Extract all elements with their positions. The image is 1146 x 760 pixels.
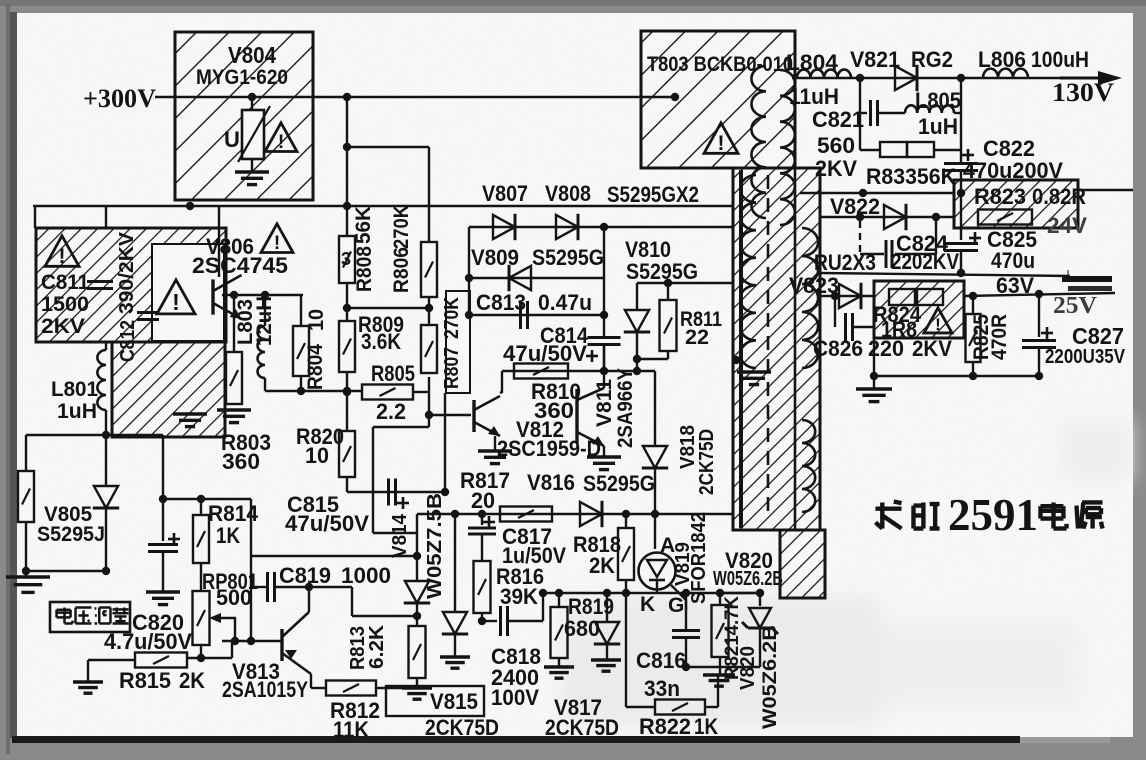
svg-text:10: 10 — [305, 309, 328, 331]
junction rect row — [600, 223, 608, 231]
transformer core hatched strip — [733, 168, 820, 530]
svg-text:W05Z6.2B: W05Z6.2B — [760, 625, 781, 729]
capacitor C813 — [519, 301, 522, 329]
resistor R820 — [346, 392, 348, 431]
inductor L805 — [905, 105, 954, 113]
diode V814 — [405, 581, 429, 603]
faint watermark — [560, 420, 1130, 726]
resistor R817 — [500, 507, 552, 522]
R824 hatched box — [874, 281, 964, 338]
wire C818 right — [508, 620, 543, 622]
hatched box below V806 — [112, 342, 225, 437]
diode V809 — [509, 266, 531, 290]
svg-text:L801: L801 — [51, 378, 98, 401]
inductor L804 — [797, 70, 851, 78]
svg-text:1uH: 1uH — [918, 114, 958, 139]
diode V818 on x655 — [654, 371, 656, 446]
bottom scan shadow line — [12, 736, 1020, 743]
svg-text:2SA966Y: 2SA966Y — [614, 368, 637, 448]
wire to V813 collector — [308, 587, 310, 612]
svg-text:130V: 130V — [1052, 78, 1114, 107]
ground in hatched box — [173, 412, 207, 415]
ground under R819 — [558, 658, 560, 666]
ground bottom-left — [25, 571, 27, 576]
svg-text:360: 360 — [222, 449, 260, 474]
svg-text:1uH: 1uH — [57, 400, 97, 423]
T803 primary winding left — [751, 66, 766, 218]
svg-text:RU2X3: RU2X3 — [814, 250, 876, 275]
varistor V804 — [251, 97, 253, 110]
capacitor C817 electrolytic — [481, 514, 483, 525]
svg-text:390/2KV: 390/2KV — [116, 231, 138, 314]
junction thyristor anode — [651, 510, 659, 518]
diode V823 — [839, 284, 861, 308]
vertical x251 — [250, 499, 252, 641]
resistor R812 — [326, 681, 376, 696]
wire down to regulator — [373, 426, 429, 428]
wire R816 bottom to C818 — [481, 613, 483, 621]
svg-text:C826: C826 — [813, 336, 863, 361]
wire base feed V812 — [429, 414, 471, 416]
wire R815 left to ground — [88, 659, 135, 661]
svg-text:6.2K: 6.2K — [366, 624, 388, 669]
varistor block V804 hatched box — [175, 32, 313, 200]
svg-text:22: 22 — [685, 326, 709, 349]
diode V807 — [493, 215, 515, 239]
capacitor C814 electrolytic — [588, 336, 621, 339]
svg-text:V814: V814 — [389, 513, 411, 558]
wire thyristor row right — [720, 592, 760, 594]
svg-text:25V: 25V — [1053, 293, 1098, 319]
svg-text:2CK75D: 2CK75D — [545, 715, 619, 740]
svg-text:!: ! — [59, 245, 66, 268]
wire V810 top y283 — [637, 282, 733, 284]
svg-text:2202KV: 2202KV — [891, 249, 959, 274]
wire y391 lower rail — [264, 378, 266, 391]
wire up from C815 node — [444, 393, 446, 492]
capacitor C825 electrolytic — [960, 193, 962, 240]
svg-text:2KV: 2KV — [815, 156, 857, 181]
ground 63V right — [1067, 270, 1069, 278]
svg-text:3: 3 — [341, 249, 351, 269]
wire to left resistor — [26, 434, 106, 436]
svg-text:0.82R: 0.82R — [1032, 184, 1086, 209]
voltage adjust label box — [50, 602, 130, 632]
ground under V817 — [591, 658, 621, 661]
capacitor C812 — [137, 311, 159, 314]
wire C813 row y315 — [469, 314, 604, 316]
junction y206 left — [186, 202, 194, 210]
junction R809/R805 — [343, 388, 351, 396]
svg-text:680: 680 — [564, 616, 600, 641]
junction R805/R807 node — [425, 411, 433, 419]
svg-text:V821: V821 — [850, 47, 900, 72]
junction V804 top — [248, 93, 256, 101]
svg-text:R805: R805 — [371, 361, 415, 386]
svg-text:12uH: 12uH — [253, 296, 276, 346]
svg-text:220: 220 — [868, 336, 904, 361]
wire 63V rail — [821, 273, 1070, 276]
transformer hatched tail — [780, 530, 825, 598]
svg-text:C819: C819 — [279, 563, 331, 588]
svg-text:L805: L805 — [915, 88, 961, 113]
svg-text:V808: V808 — [545, 181, 591, 206]
wire y371 rail — [502, 370, 655, 372]
svg-text:!: ! — [718, 132, 725, 155]
svg-text:1K: 1K — [216, 523, 240, 548]
svg-text:24V: 24V — [1047, 213, 1087, 238]
warning triangle in R824 — [924, 308, 952, 333]
junction R818 top — [622, 510, 630, 518]
svg-text:V815: V815 — [430, 689, 478, 714]
svg-text:47u/50V: 47u/50V — [503, 341, 587, 366]
diode V816 — [580, 502, 602, 526]
resistor R825 — [972, 296, 974, 314]
resistor R811 — [667, 283, 669, 300]
wire ground rail y376 — [874, 375, 1039, 377]
warning triangle in T803 — [704, 123, 738, 153]
svg-text:C821: C821 — [812, 107, 864, 132]
wire C819 right — [275, 586, 352, 588]
svg-text:56K: 56K — [352, 206, 375, 244]
svg-text:2591: 2591 — [948, 490, 1038, 540]
junction C817 top — [478, 510, 486, 518]
capacitor C818 — [499, 606, 502, 636]
svg-text:K: K — [640, 593, 655, 616]
svg-text:470u: 470u — [991, 248, 1035, 273]
transformer core dashed line — [767, 175, 770, 520]
wire y556 link — [251, 555, 417, 557]
diode V810 — [636, 283, 638, 310]
resistor R805 — [362, 385, 413, 400]
junction y206 mid — [343, 202, 351, 210]
svg-text:W05Z7.5B: W05Z7.5B — [424, 493, 446, 599]
svg-text:R815: R815 — [119, 668, 171, 693]
wire y499 R814 top — [163, 498, 251, 500]
wire rectifier row y227 — [469, 226, 733, 228]
wire to error amp — [106, 434, 163, 436]
capacitor C826 branch — [831, 292, 839, 300]
svg-text:560: 560 — [817, 133, 855, 158]
svg-text:V811: V811 — [593, 379, 616, 427]
resistor R815 — [135, 653, 187, 668]
svg-text:R804: R804 — [304, 344, 327, 390]
svg-text:C816: C816 — [636, 648, 686, 673]
resistor R833 — [880, 142, 907, 157]
junction R808/R809 — [343, 304, 351, 312]
svg-text:S5295J: S5295J — [37, 523, 105, 546]
thyristor gate wire — [671, 585, 686, 600]
arrow 130V — [1098, 71, 1122, 85]
wire B+ rail y206 — [33, 205, 733, 207]
capacitor C816 — [685, 593, 687, 629]
warning triangle in lower hatch — [157, 280, 195, 314]
junction L804 out — [856, 74, 864, 82]
svg-text:V807: V807 — [482, 181, 528, 206]
inductor L806 — [983, 69, 1028, 78]
svg-text:R822: R822 — [639, 714, 691, 739]
diode W05Z7.5B — [454, 514, 456, 612]
svg-text:2SC4745: 2SC4745 — [192, 253, 288, 278]
transistor V811 — [575, 389, 578, 443]
svg-text:1500: 1500 — [41, 293, 89, 316]
wire emitter to R812 — [310, 674, 312, 688]
svg-text:2K: 2K — [179, 668, 205, 693]
T803 secondary winding lower-right — [802, 420, 815, 512]
svg-text:S5295G: S5295G — [532, 245, 604, 270]
transistor V806 — [211, 279, 214, 314]
svg-text:V816: V816 — [527, 470, 575, 495]
white window for V806 — [152, 244, 224, 341]
potentiometer RP801 — [200, 563, 202, 591]
capacitor C815 electrolytic — [387, 479, 390, 506]
thyristor V819 — [654, 514, 656, 549]
inductor L803 — [264, 295, 266, 326]
resistor R801 — [18, 471, 34, 522]
T803 primary winding right — [780, 70, 795, 225]
transistor V812 — [501, 371, 503, 393]
wire R818 bottom — [625, 580, 627, 593]
transformer T803 hatched box — [641, 31, 795, 168]
svg-text:V822: V822 — [830, 194, 880, 219]
svg-text:V804: V804 — [228, 42, 276, 68]
resistor R813 — [416, 603, 418, 626]
wire 25V rail right — [964, 293, 1115, 296]
diode V805 — [94, 486, 118, 508]
wire C816 bottom link — [686, 666, 720, 668]
svg-text:2K: 2K — [589, 553, 615, 578]
resistor R808 — [339, 236, 355, 283]
wire left leg x469 — [468, 227, 470, 315]
snubber hatched box C811 — [36, 228, 226, 342]
wire regulator rail y514 — [417, 513, 733, 515]
junction transformer left tap — [732, 356, 740, 364]
resistor R806 — [421, 242, 437, 297]
wire base rail y641 — [222, 640, 282, 642]
resistor R804 — [300, 295, 302, 326]
wire emitter rail y295 — [222, 294, 303, 296]
resistor R821 — [719, 593, 721, 605]
svg-text:R808: R808 — [353, 246, 376, 292]
resistor R803 — [233, 295, 235, 352]
wire V804 node down — [346, 97, 348, 236]
R823 hatched box — [954, 180, 1078, 228]
transistor V813 PNP — [280, 629, 283, 661]
wire x417 riser — [416, 514, 418, 581]
svg-text:R83356K: R83356K — [866, 164, 956, 189]
svg-text:V820: V820 — [737, 646, 759, 690]
svg-text:2CK75D: 2CK75D — [696, 429, 718, 495]
junction V821 out — [957, 74, 965, 82]
T803 secondary winding upper-right — [802, 228, 818, 368]
ground under V811 — [603, 446, 605, 456]
svg-text:RG2: RG2 — [911, 47, 953, 72]
svg-text:R823: R823 — [974, 184, 1026, 209]
ground under R803 — [217, 408, 251, 411]
svg-text:!: ! — [172, 289, 180, 315]
svg-text:2SC1959-D: 2SC1959-D — [497, 436, 601, 461]
wire L801 column — [105, 342, 107, 350]
svg-text:100V: 100V — [491, 685, 539, 710]
resistor R814 — [200, 499, 202, 515]
svg-text:270K: 270K — [390, 205, 413, 249]
wire y593 rail — [543, 592, 760, 594]
resistor R822 — [655, 700, 705, 715]
svg-text:270K: 270K — [441, 297, 463, 339]
ground inside transformer — [737, 370, 771, 373]
resistor R807 — [421, 325, 437, 373]
ground under R815 — [73, 680, 103, 683]
junction C819 wire — [413, 552, 421, 560]
resistors inside R824 — [889, 289, 915, 305]
wire y193 to R823 — [800, 192, 954, 194]
svg-text:500: 500 — [216, 585, 252, 610]
wire RP801 bottom to R815 — [200, 645, 202, 658]
junction L801 bottom — [102, 431, 110, 439]
wire right leg x604 — [603, 227, 605, 337]
svg-text:2KV: 2KV — [41, 315, 85, 338]
capacitor C824 — [885, 240, 888, 268]
wire R812 right — [376, 687, 409, 689]
capacitor C820 electrolytic — [162, 499, 164, 541]
T803 secondary winding upper-left — [740, 175, 756, 368]
svg-text:!: ! — [935, 315, 941, 334]
svg-text:!: ! — [278, 132, 284, 153]
wire R822 right riser — [705, 706, 718, 708]
diode V822 — [884, 205, 906, 229]
wire R811 bottom — [667, 351, 669, 359]
ground under V812 — [494, 436, 496, 450]
wire V809 row y278 — [469, 277, 604, 279]
svg-text:10: 10 — [305, 443, 329, 468]
wire R820 bottom to C815 — [346, 477, 348, 492]
svg-text:2200U35V: 2200U35V — [1045, 346, 1126, 368]
wire cross link y308 — [347, 307, 429, 309]
warning triangle beside V806 — [261, 224, 293, 253]
svg-text:2CK75D: 2CK75D — [425, 715, 499, 740]
svg-text:2KV: 2KV — [912, 336, 952, 361]
inductor L801 — [97, 350, 106, 410]
svg-text:11uH: 11uH — [789, 84, 839, 109]
label R807 270K vertical boxed — [446, 291, 470, 393]
svg-text:V809: V809 — [471, 245, 519, 270]
wire 25V rail y296 — [821, 295, 874, 297]
junction C815 right — [441, 488, 449, 496]
svg-text:20: 20 — [471, 488, 495, 513]
resistor inside R823 — [978, 210, 1032, 225]
svg-text:U: U — [224, 127, 240, 152]
zener V820 — [756, 589, 764, 597]
wire R805 right — [413, 391, 429, 393]
warning triangle in V804 — [265, 123, 297, 152]
svg-text:SFOR1842: SFOR1842 — [688, 512, 710, 604]
ground under W05Z7.5B — [440, 655, 470, 658]
resistor R809 — [339, 321, 355, 372]
svg-text:C812: C812 — [117, 320, 139, 362]
svg-text:C813: C813 — [476, 290, 526, 315]
ground under C820 — [146, 590, 180, 593]
capacitor C811 — [87, 280, 113, 283]
svg-text:MYG1-620: MYG1-620 — [196, 66, 288, 89]
wire +300V rail — [155, 96, 675, 98]
wire branch to R806 — [347, 146, 429, 148]
svg-text:S5295G: S5295G — [583, 471, 655, 496]
junction node B1 — [343, 93, 351, 101]
ground under R813 in V815 box — [416, 678, 418, 687]
svg-text:0.47u: 0.47u — [538, 290, 592, 315]
wire R806 bottom to R807 — [428, 297, 430, 325]
diode V821 — [895, 66, 917, 90]
ground under V804 — [251, 159, 253, 171]
svg-text:S5295GX2: S5295GX2 — [607, 182, 699, 207]
svg-text:100uH: 100uH — [1031, 47, 1089, 72]
svg-text:47u/50V: 47u/50V — [285, 511, 369, 536]
svg-text:39K: 39K — [500, 584, 538, 609]
capacitor C822 electrolytic — [960, 150, 962, 163]
wire C819 jog — [351, 587, 353, 616]
wire bottom-left node — [26, 570, 106, 572]
wire R823 right out — [1078, 189, 1133, 191]
ground under R821 — [719, 657, 721, 674]
svg-text:11K: 11K — [333, 717, 369, 742]
svg-text:33n: 33n — [644, 676, 680, 701]
resistor R819 — [558, 593, 560, 607]
svg-text:C811: C811 — [41, 271, 89, 294]
svg-text:L804: L804 — [786, 50, 839, 75]
wire 130V rail — [792, 77, 1118, 79]
R833 branch — [859, 113, 861, 150]
ground under rail — [873, 376, 875, 388]
svg-text:!: ! — [274, 233, 280, 254]
svg-text:1K: 1K — [694, 714, 718, 739]
capacitor C819 — [266, 572, 269, 602]
resistor R816 — [474, 561, 491, 613]
wire R809 bottom — [346, 372, 348, 392]
stub to C811 box — [34, 206, 36, 228]
capacitor C827 electrolytic — [1038, 294, 1040, 337]
svg-text:3.6K: 3.6K — [361, 329, 401, 354]
wire x626 to R822 — [625, 593, 627, 707]
wire R808 bottom — [346, 283, 348, 321]
svg-text:1000: 1000 — [341, 563, 391, 588]
svg-text:2SA1015Y: 2SA1015Y — [222, 677, 308, 702]
svg-text:R807: R807 — [441, 347, 463, 389]
svg-text:+300V: +300V — [83, 84, 156, 113]
filter branch C821 L805 — [859, 78, 861, 113]
diode V808 — [556, 215, 578, 239]
svg-text:T803 BCKB0-010: T803 BCKB0-010 — [647, 53, 793, 76]
svg-text:S5295G: S5295G — [626, 259, 698, 284]
diode V817 — [606, 593, 608, 622]
svg-text:470R: 470R — [988, 314, 1011, 360]
wire C811 top stub — [105, 206, 107, 228]
junction node R806 branch — [343, 143, 351, 151]
resistor R818 — [625, 514, 627, 528]
box around V815 — [386, 686, 484, 716]
svg-text:2.2: 2.2 — [376, 399, 406, 424]
svg-text:L806: L806 — [978, 47, 1026, 72]
warning triangle in C811 box — [45, 236, 79, 266]
svg-text:R806: R806 — [390, 247, 413, 293]
resistor R810 — [514, 364, 568, 379]
wire V822 row y217 — [821, 216, 954, 218]
title Changhong 2591 power supply — [875, 502, 901, 529]
C824 snubber branch — [859, 221, 861, 254]
svg-text:W05Z6.2B: W05Z6.2B — [713, 568, 783, 590]
